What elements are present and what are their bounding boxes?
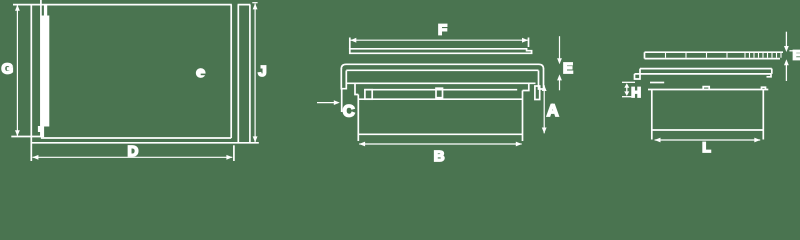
dimension J top tick	[252, 2, 257, 4]
door panel crushed zone hatch	[745, 53, 781, 58]
dimension G line	[16, 5, 18, 136]
svg-text:B: B	[434, 148, 445, 165]
dimension D left arrow	[32, 155, 38, 160]
dimension E upper stem	[559, 36, 561, 59]
frame bar bottom edge	[635, 73, 772, 75]
frame right lip	[539, 69, 544, 90]
dimension F left extension	[349, 38, 351, 50]
frame inner right edge	[237, 5, 239, 143]
dimension C extension line	[341, 90, 343, 113]
thickness dim up arrow	[784, 59, 789, 65]
door right edge	[230, 5, 232, 138]
door panel bar	[645, 52, 784, 58]
clip middle	[436, 88, 443, 98]
svg-text:H: H	[631, 85, 641, 100]
pan bottom	[358, 133, 522, 135]
thickness dim lower stem	[785, 64, 787, 81]
frame left edge (extends down as D extension)	[30, 4, 32, 161]
door bottom edge	[41, 137, 231, 139]
pan left outer wall and jog	[355, 83, 358, 94]
right step above pan line	[762, 87, 766, 89]
dimension F right extension	[528, 38, 530, 48]
dimension D line	[33, 156, 233, 158]
svg-text:L: L	[702, 139, 711, 155]
frame inner top line	[346, 69, 538, 71]
pan bottom	[652, 129, 764, 131]
dimension G bottom arrow	[15, 130, 20, 136]
dimension A line	[543, 85, 545, 133]
dimension L right arrow	[754, 138, 760, 143]
door left edge line	[40, 0, 42, 137]
svg-text:J: J	[258, 63, 266, 80]
svg-text:G: G	[2, 61, 14, 78]
dimension F right arrow	[522, 38, 528, 43]
dimension L left arrow	[655, 138, 661, 143]
dimension H top tick	[622, 81, 635, 83]
dimension F line	[350, 39, 528, 41]
ledge below frame left	[650, 82, 664, 84]
dimension H bottom tick	[622, 96, 631, 98]
dimension L line	[655, 139, 761, 141]
dimension A top arrow	[542, 85, 547, 91]
pan left wall	[357, 95, 359, 142]
svg-text:A: A	[547, 102, 559, 120]
dimension E lower stem	[559, 80, 561, 90]
frame bar left end cap	[639, 69, 641, 74]
dimension J bottom arrow	[253, 136, 258, 142]
frame bar right end cap	[771, 69, 773, 74]
door panel core seam ticks	[666, 53, 728, 58]
frame bar top edge	[640, 68, 772, 70]
latch on right lip	[535, 86, 540, 100]
dimension C line	[317, 102, 338, 104]
dimension D right arrow	[226, 155, 232, 160]
thickness dim upper stem	[785, 32, 787, 47]
frame top edge (with gap at door/frame joint)	[13, 4, 250, 6]
frame bar right lip	[767, 74, 772, 77]
pan right wall	[762, 90, 764, 140]
hinge top stem	[44, 5, 47, 16]
thickness dim down arrow	[784, 46, 789, 52]
frame bottom edge (extends right as J extension)	[31, 142, 258, 144]
dimension F left arrow	[350, 38, 356, 43]
dimension H stem	[626, 86, 628, 93]
dimension C arrow	[334, 100, 340, 105]
svg-text:E: E	[563, 60, 573, 77]
dimension G top arrow	[15, 5, 20, 11]
pan left wall	[651, 90, 653, 140]
dimension B right arrow	[516, 142, 522, 147]
pan right outer wall and jog	[523, 83, 529, 90]
dimension A bottom arrow	[542, 128, 547, 134]
hinge bar	[42, 16, 50, 127]
dimension J line	[254, 4, 256, 143]
dimension B left arrow	[359, 142, 365, 147]
svg-text:D: D	[128, 143, 139, 160]
clip left	[365, 90, 372, 100]
e logo	[196, 68, 206, 78]
hinge bottom stem	[41, 127, 44, 138]
thickness dim top tick	[789, 50, 800, 52]
svg-text:F: F	[438, 22, 447, 39]
pan lower inner line	[358, 98, 522, 100]
dimension H down arrow	[624, 91, 629, 96]
pan right wall	[522, 91, 524, 142]
pan top line	[648, 89, 768, 91]
door panel bar (section)	[350, 49, 532, 54]
dimension J top arrow	[253, 3, 258, 9]
dimension G bottom extension tick	[11, 136, 42, 138]
frame bottom line	[346, 82, 535, 84]
svg-text:E: E	[793, 47, 800, 62]
dimension H up arrow	[624, 83, 629, 88]
clip above pan line	[703, 87, 709, 90]
dimension D right extension line	[233, 145, 235, 161]
hinge bottom nub	[38, 126, 43, 132]
frame bar left lip	[635, 74, 641, 79]
frame profile top edge with rounded ends	[341, 64, 543, 69]
dimension E up arrow	[557, 74, 562, 80]
pan upper inner line	[364, 89, 517, 91]
dimension E down arrow	[557, 58, 562, 64]
frame outer right edge	[249, 5, 251, 143]
frame left lip	[341, 68, 346, 89]
svg-text:C: C	[343, 103, 355, 121]
dimension B line	[359, 143, 522, 145]
